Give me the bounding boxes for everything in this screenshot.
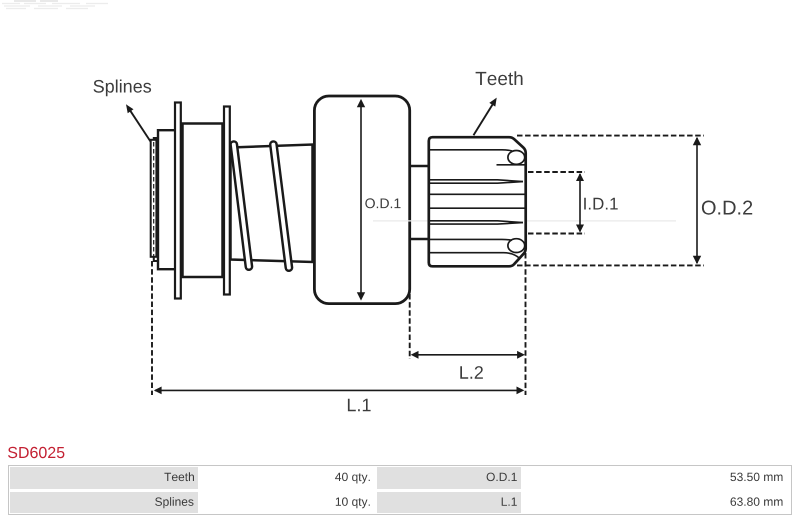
dimension I.D.1: [528, 172, 618, 234]
drive clutch housing cylinder: [314, 96, 409, 304]
extension line below gear (right): [525, 253, 527, 395]
table text row 1: [164, 472, 194, 481]
label Teeth: [476, 71, 523, 85]
faint watermark line: [373, 220, 676, 222]
spec table: [8, 465, 792, 515]
washer plate 1: [175, 103, 181, 299]
gear teeth lines: [430, 150, 525, 259]
leader arrow to splines: [126, 104, 152, 143]
hub cylinder: [183, 124, 223, 278]
spring coil rod A: [234, 145, 249, 267]
extension line left (L.1 left): [151, 261, 153, 395]
spring barrel: [231, 145, 313, 263]
dimension L.1: [154, 387, 525, 412]
watermark fragment top-left: [2, 1, 108, 9]
dimension L.2: [411, 351, 525, 379]
extension line below housing (L.2 left): [409, 294, 411, 359]
part number SD6025: [8, 447, 64, 458]
spline step ring: [154, 138, 159, 261]
pinion gear body: [429, 137, 526, 266]
dimension O.D.1: [357, 99, 401, 301]
washer plate 2: [224, 107, 230, 295]
leader arrow to teeth: [474, 98, 497, 136]
table text row 2: [155, 497, 193, 508]
label Splines: [94, 80, 152, 97]
dimension O.D.2: [517, 136, 752, 266]
splined shaft end: [151, 140, 157, 257]
collar: [158, 130, 178, 269]
shaft to pinion: [411, 166, 430, 239]
spring coil rod B: [273, 145, 289, 268]
